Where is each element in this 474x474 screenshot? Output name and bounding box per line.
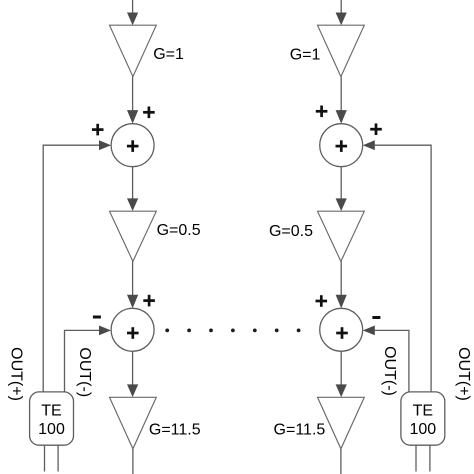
wire: OUT(-) feedback left into S2L xyxy=(65,326,112,393)
label TE 100 right xyxy=(409,403,436,438)
wire: G=11.5 right output to bottom edge xyxy=(340,449,342,474)
plus sign: inside S1R xyxy=(336,140,348,152)
block TE 100 right (rounded box) xyxy=(401,392,445,445)
block TE 100 left (rounded box) xyxy=(30,392,74,445)
wire: TE 100 left bottom leads xyxy=(45,445,59,471)
svg-text:100: 100 xyxy=(409,421,436,438)
plus sign: S2L top input xyxy=(143,295,155,307)
amplifier G=11.5 left (triangle) xyxy=(110,397,157,449)
plus sign: S1L top input xyxy=(143,107,155,119)
plus sign: S1R right input xyxy=(370,123,382,135)
svg-text:OUT(+): OUT(+) xyxy=(455,347,472,401)
wire: G=0.5 left output to summer S2L xyxy=(127,261,138,308)
plus sign: inside S2R xyxy=(336,327,348,339)
wire: G=0.5 right output to summer S2R xyxy=(336,261,347,308)
amplifier G=0.5 left (triangle) xyxy=(110,211,157,261)
wire: S2L output to G=11.5 left xyxy=(127,351,138,397)
svg-text:OUT(-): OUT(-) xyxy=(76,347,93,397)
summer S1R (circle) xyxy=(320,124,363,167)
svg-text:100: 100 xyxy=(38,421,65,438)
wire: TE 100 right bottom leads xyxy=(416,445,430,471)
minus sign: S2L left input xyxy=(93,316,101,319)
svg-text:G=0.5: G=0.5 xyxy=(157,222,201,239)
summer S2R (circle) xyxy=(320,308,363,351)
label TE 100 left xyxy=(38,403,65,438)
plus sign: S1L left input xyxy=(92,124,104,136)
amplifier G=0.5 right (triangle) xyxy=(318,211,365,261)
plus sign: S1R top input xyxy=(316,106,328,118)
dotted continuation between S2L and S2R xyxy=(165,329,300,333)
svg-text:G=11.5: G=11.5 xyxy=(274,422,326,439)
wire: left G=1 output to summer S1L xyxy=(127,77,138,124)
svg-text:G=0.5: G=0.5 xyxy=(269,223,313,240)
plus sign: inside S1L xyxy=(127,140,139,152)
minus sign: S2R right input xyxy=(372,316,380,319)
wire: S1R output to G=0.5 right xyxy=(336,167,347,211)
plus sign: S2R top input xyxy=(316,295,328,307)
wire: G=11.5 left output to bottom edge xyxy=(132,449,134,474)
svg-text:OUT(-): OUT(-) xyxy=(381,346,398,396)
amplifier G=11.5 right (triangle) xyxy=(318,397,365,449)
plus sign: inside S2L xyxy=(127,327,139,339)
summer S2L (circle) xyxy=(111,308,154,351)
wire: left input from top xyxy=(127,0,138,25)
svg-text:G=1: G=1 xyxy=(153,46,184,63)
wire: S1L output to G=0.5 left xyxy=(127,167,138,211)
svg-text:OUT(+): OUT(+) xyxy=(8,347,25,401)
amplifier G=1 right (triangle) xyxy=(318,25,365,76)
amplifier G=1 left (triangle) xyxy=(110,25,157,76)
wire: OUT(-) feedback right into S2R xyxy=(363,326,409,393)
wire: S2R output to G=11.5 right xyxy=(336,351,347,397)
svg-text:G=11.5: G=11.5 xyxy=(149,422,201,439)
svg-text:TE: TE xyxy=(413,403,433,420)
wire: OUT(+) feedback left into S1L xyxy=(43,140,111,392)
wire: OUT(+) feedback right into S1R xyxy=(363,140,431,392)
svg-text:G=1: G=1 xyxy=(290,47,321,64)
summer S1L (circle) xyxy=(111,124,154,167)
wire: right input from top xyxy=(336,0,347,25)
svg-text:TE: TE xyxy=(41,403,61,420)
wire: right G=1 output to summer S1R xyxy=(336,77,347,124)
